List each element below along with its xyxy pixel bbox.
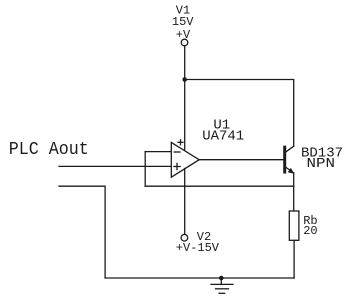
wire PLC return: [59, 186, 105, 278]
wire V1 to op-amp V+ pin: [184, 46, 186, 150]
svg-text:15V: 15V: [172, 15, 194, 29]
label V2 value: [176, 230, 220, 255]
resistor Rb: [289, 211, 299, 240]
wire op-amp output to base: [199, 159, 283, 161]
wire op-amp V- pin to V2: [184, 169, 186, 235]
wire feedback riser: [144, 152, 146, 187]
wire top rail to collector: [185, 80, 294, 147]
svg-text:20: 20: [303, 224, 317, 238]
terminal V1: [181, 39, 188, 46]
label U1 UA741: [202, 117, 244, 144]
node junction at ground: [219, 276, 224, 281]
svg-text:NPN: NPN: [307, 156, 336, 172]
ground: [211, 278, 233, 293]
wire resistor to bottom rail: [293, 240, 295, 278]
label Rb value 20: [303, 214, 317, 238]
op-amp U1: [171, 140, 199, 177]
svg-text:+V-15V: +V-15V: [176, 241, 220, 255]
svg-text:UA741: UA741: [202, 128, 244, 144]
wire non-inverting input from PLC: [59, 165, 171, 167]
wire emitter to resistor: [293, 173, 295, 211]
node junction at V+ rail: [182, 77, 187, 82]
wire feedback from emitter: [145, 185, 294, 187]
label Q1 BD137 NPN: [301, 145, 343, 172]
terminal V2: [181, 234, 188, 241]
wire bottom rail: [105, 277, 294, 279]
transistor Q1 BD137: [285, 146, 294, 173]
svg-text:+V: +V: [176, 28, 191, 42]
label V1 value: [172, 4, 194, 42]
wire inverting input: [145, 151, 171, 153]
svg-text:PLC Aout: PLC Aout: [9, 140, 89, 160]
